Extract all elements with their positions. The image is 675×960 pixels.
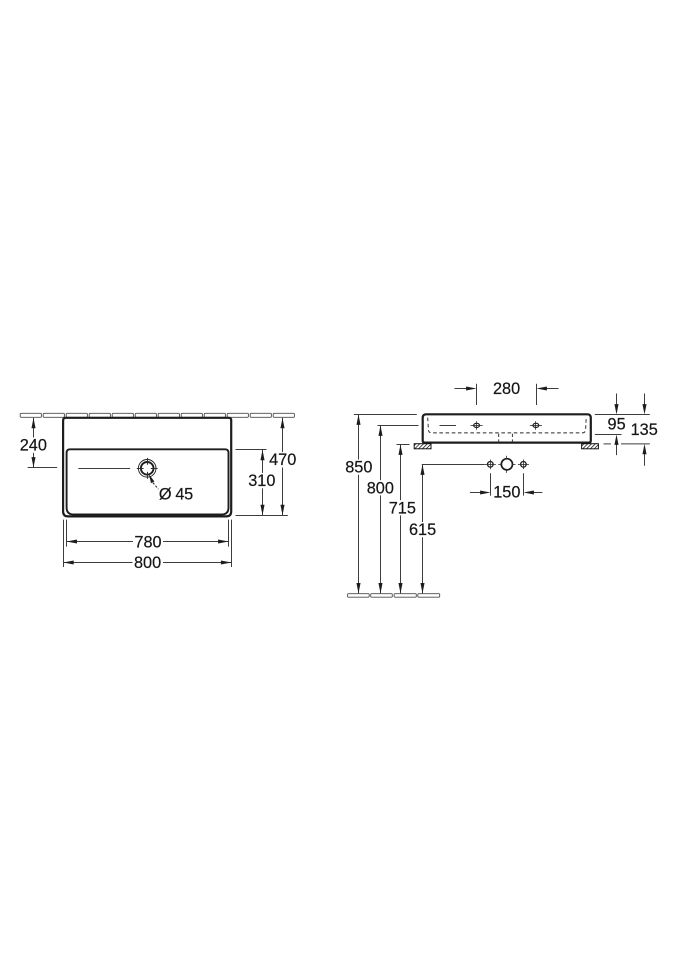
hidden drain lines (side view, dashed) <box>499 434 513 442</box>
dimension 150 (fixing hole spacing) <box>470 484 543 502</box>
wall bracket right (hatched) <box>582 444 599 449</box>
svg-text:280: 280 <box>493 380 520 398</box>
tap hole Ø45 (plan view) <box>137 458 158 479</box>
leader arrow and label Ø 45 <box>149 474 193 503</box>
wall line (tiled wall strip, plan view) <box>20 413 294 417</box>
tap hole centre circle (elevation) <box>498 456 515 473</box>
fixing hole left (elevation) <box>485 460 496 470</box>
extension lines for 95 / 135 <box>595 415 650 444</box>
svg-text:310: 310 <box>248 472 275 490</box>
hidden bowl contour (side view, dashed) <box>428 418 587 433</box>
washbasin outline (side view) <box>423 414 591 442</box>
dimension 800 (outer width) <box>63 554 231 572</box>
fixing hole right (elevation) <box>518 460 529 470</box>
tap group centreline (elevation) <box>422 464 485 466</box>
svg-text:135: 135 <box>631 421 658 439</box>
svg-text:800: 800 <box>134 554 161 572</box>
svg-text:240: 240 <box>20 436 47 454</box>
extension lines below basin for 780/800 <box>64 520 232 567</box>
dimension 310 (bowl top to bottom) <box>248 450 275 515</box>
deck fixing hole right (side view) <box>530 421 542 430</box>
washbasin outer outline (plan view) <box>63 418 231 517</box>
extension lines for 280 <box>477 384 537 405</box>
dimension 240 (wall to tap-hole centre) <box>20 418 57 468</box>
svg-text:850: 850 <box>345 459 372 477</box>
dimension 280 (deck holes spacing) <box>455 380 559 398</box>
dimension 850 (rim height) <box>345 415 372 594</box>
dimension 780 (bowl width) <box>67 533 229 551</box>
svg-text:715: 715 <box>389 499 416 517</box>
dimension 95 (rim to bowl depth) <box>608 394 626 456</box>
svg-text:95: 95 <box>608 416 626 434</box>
floor line (tiled floor strip) <box>348 594 440 598</box>
svg-text:Ø 45: Ø 45 <box>159 485 193 503</box>
extension line bowl top to 310 <box>236 449 267 451</box>
extension lines for 150 <box>491 473 524 495</box>
centreline through tap hole (plan view) <box>78 468 130 470</box>
extension line basin bottom to 470 <box>236 515 288 517</box>
dimension 135 (total height) <box>631 394 658 466</box>
svg-text:800: 800 <box>367 479 394 497</box>
washbasin inner bowl (plan view) <box>67 449 229 514</box>
svg-text:150: 150 <box>493 484 520 502</box>
dimension 470 (wall to front edge) <box>269 418 297 515</box>
svg-text:615: 615 <box>409 521 436 539</box>
extension line rim to 850 <box>354 414 417 416</box>
deck fixing hole left (side view) <box>471 421 483 430</box>
dimension 800 (hole centre height) <box>367 426 394 594</box>
extension line hole centreline to 800 <box>378 425 419 427</box>
wall bracket left (hatched) <box>414 444 431 449</box>
extension line underside to 715 <box>397 444 410 446</box>
svg-text:780: 780 <box>134 533 161 551</box>
deck centreline (side view) <box>440 425 457 427</box>
svg-text:470: 470 <box>269 451 296 469</box>
dimension 715 (underside height) <box>389 445 416 594</box>
dimension 615 (tap hole height) <box>409 465 436 594</box>
